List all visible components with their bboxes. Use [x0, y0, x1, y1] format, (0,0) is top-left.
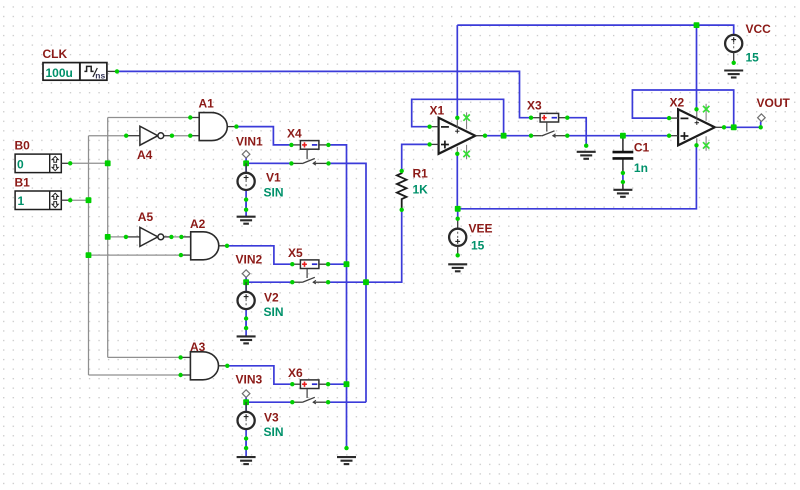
- wire B0 output to bus: [70, 162, 108, 164]
- svg-text:V3: V3: [264, 411, 279, 425]
- pin dot CLK output: [115, 69, 119, 73]
- svg-text:VEE: VEE: [469, 221, 493, 235]
- voltage source VCC: [725, 35, 742, 63]
- pin dots X1: [427, 116, 487, 156]
- wire CLK output net: [117, 71, 531, 117]
- wire X3 output to C1 and X2 + input: [567, 135, 669, 137]
- label A3: [190, 340, 206, 354]
- digital source B1: [15, 191, 70, 210]
- svg-text:X5: X5: [288, 246, 303, 260]
- pin dots R1: [400, 169, 404, 212]
- switch X4: [291, 141, 328, 166]
- label CLK: [43, 47, 68, 61]
- pin dots X5: [290, 262, 330, 284]
- junction X5 control bus: [344, 261, 350, 267]
- label X3: [527, 99, 542, 113]
- pin dots X6: [290, 382, 330, 404]
- svg-text:B1: B1: [15, 176, 31, 190]
- wire B1 vertical bus: [88, 136, 90, 375]
- svg-text:SIN: SIN: [264, 425, 284, 439]
- pin dots V1: [244, 197, 248, 211]
- svg-text:VOUT: VOUT: [757, 96, 791, 110]
- capacitor C1: [613, 136, 634, 190]
- svg-text:V1: V1: [266, 170, 281, 184]
- value 0 of B0: [17, 157, 24, 171]
- junction B0 bus: [105, 160, 111, 166]
- label VEE: [469, 221, 493, 235]
- label VOUT: [757, 96, 791, 110]
- pin dots A5: [105, 234, 174, 240]
- svg-text:V2: V2: [264, 291, 279, 305]
- wire X1 feedback loop: [412, 99, 504, 135]
- svg-text:1K: 1K: [413, 182, 429, 196]
- svg-text:VIN3: VIN3: [236, 373, 263, 387]
- wire X5 control - to bus: [328, 263, 346, 265]
- sine source V1: [238, 163, 255, 190]
- label X5: [288, 246, 303, 260]
- wire A2 output to X5 control +: [227, 246, 292, 264]
- junction X2 output: [731, 124, 737, 130]
- label A4: [137, 148, 153, 162]
- dot control bus bottom: [344, 446, 348, 450]
- wire X4/X5/X6 control - bus to ground: [328, 145, 346, 448]
- svg-text:100u: 100u: [46, 66, 73, 80]
- AND gate A3: [181, 352, 228, 380]
- junction B1 bus: [86, 197, 92, 203]
- label A1: [199, 97, 215, 111]
- label VIN3: [236, 373, 263, 387]
- power pin marks X2: [703, 106, 709, 149]
- wire X6 control - to bus: [328, 383, 346, 385]
- wire B0 vertical bus: [107, 118, 109, 358]
- svg-text:SIN: SIN: [264, 305, 284, 319]
- svg-text:VCC: VCC: [746, 22, 772, 36]
- value SIN of V3: [264, 425, 284, 439]
- junction VEE rail: [455, 206, 461, 258]
- svg-text:C1: C1: [634, 140, 650, 154]
- label A2: [190, 217, 206, 231]
- svg-text:X2: X2: [670, 95, 685, 109]
- switch X3: [531, 113, 568, 137]
- svg-text:CLK: CLK: [43, 47, 68, 61]
- pin dot B0 output: [68, 161, 72, 165]
- wire V3 segment below source: [245, 439, 247, 449]
- node VOUT: [758, 114, 766, 130]
- svg-text:A2: A2: [190, 217, 206, 231]
- ground under V1: [237, 217, 256, 224]
- label VIN2: [236, 253, 263, 267]
- wire V2 segment below source: [245, 319, 247, 329]
- value SIN of V2: [264, 305, 284, 319]
- wire VCC top rail: [457, 25, 733, 35]
- wire VIN3 node to X6 input: [246, 397, 292, 412]
- wire V3 to ground: [245, 429, 247, 457]
- value SIN of V1: [264, 185, 284, 199]
- wire X2 feedback loop: [632, 90, 733, 127]
- ground under V3: [237, 457, 256, 464]
- wire VIN2 node to X5 input: [246, 277, 292, 292]
- label X4: [287, 127, 302, 141]
- svg-text:15: 15: [471, 239, 485, 253]
- wire X4 output to analog bus: [329, 163, 367, 402]
- wire V1 segment below source: [245, 200, 247, 210]
- label X1: [430, 103, 445, 117]
- svg-text:0: 0: [17, 157, 24, 171]
- pin dots V3: [244, 436, 248, 450]
- wire X3 control - to ground: [567, 118, 586, 146]
- pin dots X3: [529, 116, 589, 148]
- wire C1 bottom segment: [622, 173, 624, 182]
- pin dots A3: [178, 355, 229, 377]
- svg-text:A4: A4: [137, 148, 153, 162]
- value 1n: [634, 161, 648, 175]
- wire X1 V- supply to VEE rail: [456, 154, 458, 209]
- op-amp X2: [669, 104, 724, 151]
- pin dots A1: [188, 115, 238, 138]
- svg-text:SIN: SIN: [264, 185, 284, 199]
- node VIN3: [242, 390, 250, 405]
- wire A1 output to X4 control +: [236, 127, 291, 145]
- label X6: [288, 366, 303, 380]
- svg-text:1: 1: [18, 194, 25, 208]
- value 15 of VEE: [471, 239, 485, 253]
- wire B0 bus to A3 top input: [108, 356, 181, 358]
- wire B0 bus to A1 top input: [108, 117, 191, 119]
- value 100u: [46, 66, 73, 80]
- pin dots V2: [244, 316, 248, 330]
- svg-text:A1: A1: [199, 97, 215, 111]
- pin dots X4: [289, 143, 331, 166]
- label V3: [264, 411, 279, 425]
- pin dots A4: [124, 134, 174, 138]
- wire X1 V+ supply drop: [456, 25, 458, 118]
- label VIN1: [236, 134, 263, 148]
- junction C1 top: [620, 133, 626, 184]
- svg-text:VIN1: VIN1: [236, 134, 263, 148]
- ground under VCC: [724, 71, 743, 78]
- svg-text:X3: X3: [527, 99, 542, 113]
- junction X6 control bus: [344, 381, 350, 387]
- label V2: [264, 291, 279, 305]
- pin dots X2: [667, 107, 726, 147]
- svg-text:ns: ns: [95, 70, 105, 80]
- wire B1 bus to A4 input: [89, 135, 127, 137]
- svg-text:15: 15: [746, 51, 760, 65]
- svg-text:1n: 1n: [634, 161, 648, 175]
- wire VIN1 node to X4 input: [246, 158, 291, 173]
- wire X6 output to analog bus: [328, 401, 366, 403]
- label A5: [138, 210, 154, 224]
- svg-text:VIN2: VIN2: [236, 253, 263, 267]
- wire X2 output to VOUT: [724, 122, 761, 128]
- junction VCC rail: [694, 22, 736, 65]
- label X2: [670, 95, 685, 109]
- value 15 of VCC: [746, 51, 760, 65]
- svg-text:B0: B0: [15, 139, 31, 153]
- svg-text:A5: A5: [138, 210, 154, 224]
- power pin marks X1: [463, 114, 469, 157]
- label C1: [634, 140, 650, 154]
- wire VEE source segment: [457, 209, 459, 219]
- svg-text:A3: A3: [190, 340, 206, 354]
- wire VEE rail to X2 V-: [457, 145, 696, 209]
- ground under X3: [577, 152, 596, 159]
- wire A4 output to A1 bottom input: [172, 135, 190, 137]
- inverter A5: [126, 227, 171, 246]
- switch X5: [291, 260, 328, 284]
- digital source B0: [15, 154, 70, 173]
- junction analog bus: [363, 279, 369, 285]
- wire B1 bus to A3 bottom input: [89, 374, 181, 376]
- clock source CLK: [43, 63, 117, 81]
- svg-text:X4: X4: [287, 127, 302, 141]
- ground control bus: [337, 457, 356, 464]
- label B1: [15, 176, 31, 190]
- svg-text:X6: X6: [288, 366, 303, 380]
- wire X5 output row to R1 bottom: [328, 210, 402, 282]
- sine source V2: [238, 282, 255, 309]
- resistor R1: [397, 171, 407, 210]
- wire B0 bus to A5 input: [108, 236, 126, 238]
- svg-text:R1: R1: [413, 167, 429, 181]
- label B0: [15, 139, 31, 153]
- node VIN2: [242, 270, 250, 285]
- pin dot B1 output: [68, 198, 72, 202]
- wire X1 output to X3 input: [485, 135, 531, 137]
- node VIN1: [242, 150, 250, 166]
- pin dots A2: [86, 235, 230, 258]
- wire A3 output to X6 control +: [227, 366, 292, 384]
- label R1: [413, 167, 429, 181]
- wire A5 output to A2 top input: [171, 236, 181, 238]
- value 1K: [413, 182, 429, 196]
- ground under VEE: [448, 264, 467, 271]
- ground under V2: [237, 336, 256, 343]
- voltage source VEE: [449, 219, 466, 256]
- wire B1 bus to A2 bottom input: [89, 254, 181, 256]
- value 1 of B1: [18, 194, 25, 208]
- label V1: [266, 170, 281, 184]
- wire V1 to ground: [245, 190, 247, 217]
- inverter A4: [126, 126, 172, 145]
- switch X6: [291, 380, 328, 404]
- sine source V3: [238, 402, 255, 429]
- wire X2 V+ supply drop: [696, 25, 698, 109]
- junction X1 output: [501, 133, 507, 139]
- ground under C1: [613, 190, 632, 197]
- svg-text:X1: X1: [430, 103, 445, 117]
- AND gate A1: [190, 113, 236, 141]
- wire V2 to ground: [245, 309, 247, 336]
- AND gate A2: [181, 232, 227, 260]
- label VCC: [746, 22, 772, 36]
- wire X1 + input to R1 top: [402, 144, 430, 171]
- wire B1 output to bus: [70, 199, 88, 201]
- op-amp X1: [430, 112, 485, 159]
